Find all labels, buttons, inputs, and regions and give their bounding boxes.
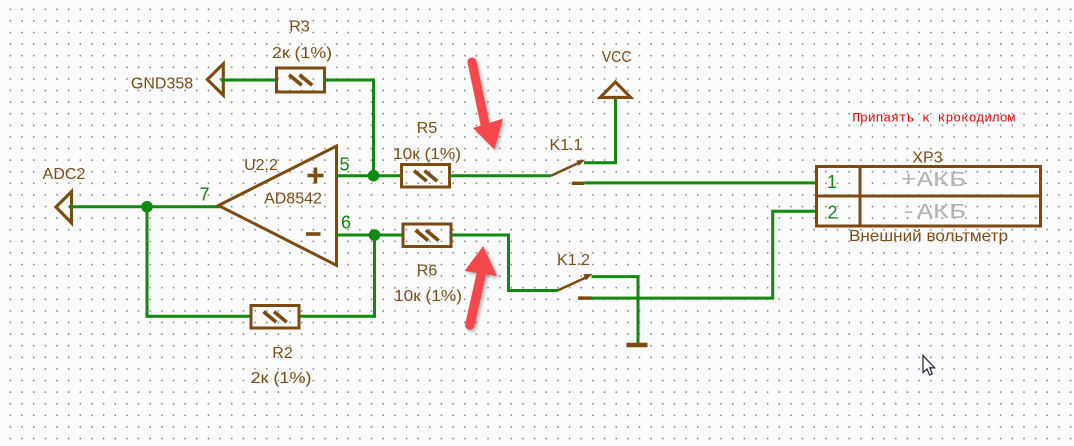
pin number 5 xyxy=(339,154,349,174)
annotation Припаять к крокодилом xyxy=(852,111,1015,126)
svg-text:7: 7 xyxy=(199,185,209,205)
op-amp U2.2 xyxy=(219,146,337,265)
svg-text:R3: R3 xyxy=(289,19,310,36)
pin number 6 xyxy=(341,213,351,233)
svg-text:Припаять к крокодилом: Припаять к крокодилом xyxy=(852,111,1015,126)
label R5 xyxy=(417,120,438,137)
label XP3 xyxy=(912,150,942,167)
label R6 xyxy=(417,262,438,279)
ground symbol GND358 xyxy=(207,64,223,95)
junction node at ADC2 wire xyxy=(141,201,153,213)
port ADC2 xyxy=(56,192,72,223)
annotation red arrow lower xyxy=(465,246,498,325)
junction pin5 node xyxy=(368,170,380,182)
value AD8542 xyxy=(264,191,322,208)
pin number 7 xyxy=(199,185,209,205)
label VCC xyxy=(602,49,632,66)
svg-text:1: 1 xyxy=(827,172,837,192)
wire pin6 to R6 xyxy=(337,234,405,237)
wire K1.1 output to XP3 pin1 xyxy=(584,181,817,184)
label R3 xyxy=(289,19,310,36)
relay contact K1.1 xyxy=(551,160,586,184)
svg-text:6: 6 xyxy=(341,213,351,233)
wire K1.2 output to XP3 pin2 xyxy=(592,211,818,298)
value 10к (1%) of R6 xyxy=(394,288,462,305)
annotation red arrow upper xyxy=(472,62,503,150)
svg-text:ADC2: ADC2 xyxy=(43,166,86,183)
value 2к (1%) of R2 xyxy=(251,370,312,387)
wire R5 to K1.1 xyxy=(450,174,552,177)
label K1.1 xyxy=(550,137,583,154)
resistor R3 xyxy=(277,68,325,92)
wire GND358 to R3 xyxy=(221,79,279,82)
power VCC xyxy=(600,82,631,97)
value Внешний вольтметр xyxy=(849,228,1008,245)
wire K1.1 to VCC xyxy=(584,98,616,163)
svg-text:2: 2 xyxy=(827,202,837,222)
junction pin6 node xyxy=(369,229,381,241)
svg-text:VCC: VCC xyxy=(602,49,632,66)
svg-text:10к (1%): 10к (1%) xyxy=(393,146,461,163)
connector XP3 xyxy=(817,167,1041,227)
wire junction down to R2 row xyxy=(147,207,251,316)
svg-text:U2.2: U2.2 xyxy=(244,157,278,174)
net label GND358 xyxy=(131,76,193,93)
resistor R5 xyxy=(402,165,450,188)
relay contact K1.2 xyxy=(558,274,593,298)
resistor R6 xyxy=(403,224,451,247)
svg-text:R5: R5 xyxy=(417,120,438,137)
label U2.2 xyxy=(244,157,278,174)
wire K1.2 to ground xyxy=(592,277,639,345)
pin number 2 xyxy=(827,202,837,222)
value 10к (1%) of R5 xyxy=(393,146,461,163)
wire R3 to pin5 node xyxy=(325,80,374,176)
wire pin5 to R5 xyxy=(337,174,403,177)
svg-text:-АКБ: -АКБ xyxy=(901,202,966,225)
svg-text:GND358: GND358 xyxy=(131,76,193,93)
label R2 xyxy=(272,345,293,362)
svg-text:K1.1: K1.1 xyxy=(550,137,583,154)
resistor R2 xyxy=(251,306,299,329)
svg-text:K1.2: K1.2 xyxy=(557,252,590,269)
svg-text:2к (1%): 2к (1%) xyxy=(251,370,312,387)
pin name -АКБ xyxy=(901,202,966,225)
svg-text:R6: R6 xyxy=(417,262,438,279)
svg-text:Внешний вольтметр: Внешний вольтметр xyxy=(849,228,1008,245)
svg-text:XP3: XP3 xyxy=(912,150,942,167)
ground xyxy=(627,343,648,348)
wire R2 right up to pin6 node xyxy=(299,235,375,316)
value 2к (1%) of R3 xyxy=(272,45,332,62)
pin name +АКБ xyxy=(901,170,966,193)
mouse cursor xyxy=(923,356,935,376)
net label ADC2 xyxy=(43,166,86,183)
wire ADC2 to op-amp output xyxy=(69,205,220,208)
svg-text:AD8542: AD8542 xyxy=(264,191,322,208)
svg-text:+АКБ: +АКБ xyxy=(901,170,966,193)
label K1.2 xyxy=(557,252,590,269)
pin number 1 xyxy=(827,172,837,192)
wire R6 to K1.2 xyxy=(451,235,558,291)
svg-text:2к (1%): 2к (1%) xyxy=(272,45,332,62)
svg-text:R2: R2 xyxy=(272,345,293,362)
svg-text:10к (1%): 10к (1%) xyxy=(394,288,462,305)
svg-text:5: 5 xyxy=(339,154,349,174)
